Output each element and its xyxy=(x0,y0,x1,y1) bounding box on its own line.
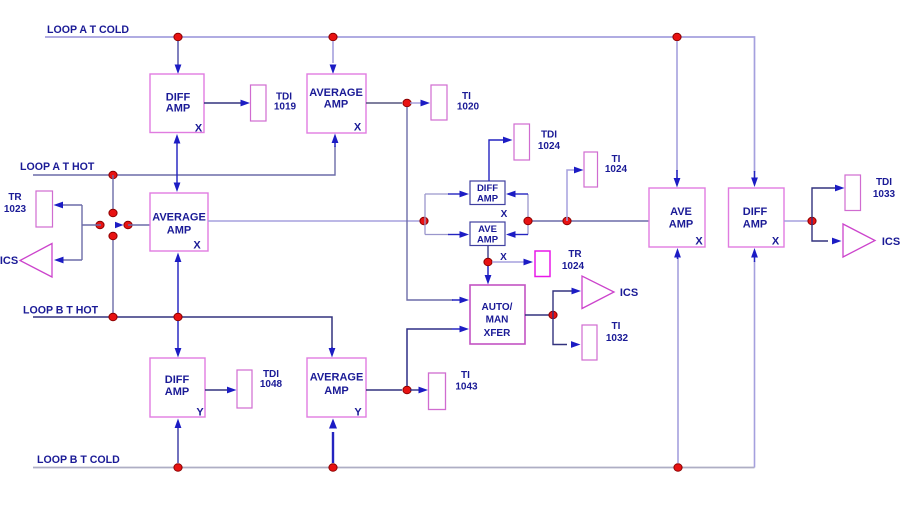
block U7 DIFF AMP xyxy=(729,188,785,247)
wire main line to U6 AVE AMP xyxy=(528,220,649,222)
alarm ICS mid triangle xyxy=(582,276,614,309)
junction dot U2 out xyxy=(403,99,411,107)
svg-text:MAN: MAN xyxy=(486,315,509,326)
svg-text:ICS: ICS xyxy=(620,287,638,299)
indicator TDI 1048 rect xyxy=(237,370,252,408)
svg-text:TI: TI xyxy=(462,91,471,102)
svg-text:TR: TR xyxy=(8,192,22,203)
indicator TI 1020 rect xyxy=(431,85,447,120)
svg-text:1048: 1048 xyxy=(260,379,283,390)
wire drop to U2 AVERAGE AMP xyxy=(332,41,334,63)
svg-text:1019: 1019 xyxy=(274,102,297,113)
svg-text:XFER: XFER xyxy=(484,328,511,339)
wire into TR 1023 xyxy=(61,204,82,206)
block U4 DIFF AMP small xyxy=(470,181,505,205)
junction dot U7 out xyxy=(808,217,816,225)
svg-text:TI: TI xyxy=(461,370,470,381)
wire U3 bottom to B-hot xyxy=(177,260,179,313)
svg-text:X: X xyxy=(195,123,203,135)
junction dot B-cold x333 xyxy=(329,464,337,472)
svg-text:Y: Y xyxy=(354,407,362,419)
wire double arrow U1-U3 xyxy=(176,141,178,185)
svg-text:Y: Y xyxy=(196,407,204,419)
junction dot A-cold/U1 xyxy=(174,33,182,41)
indicator TR 1023 rect xyxy=(36,191,53,227)
wire down into U9 DIFF AMP xyxy=(177,321,179,350)
svg-text:1023: 1023 xyxy=(4,204,27,215)
wire up to TI 1024 xyxy=(567,170,575,221)
wire U7 output xyxy=(784,220,808,222)
svg-text:1024: 1024 xyxy=(605,164,628,175)
svg-text:ICS: ICS xyxy=(0,255,18,267)
wire royal stub into U7 top xyxy=(754,171,756,180)
wire hot-leg vertical x=113 upper xyxy=(112,175,114,214)
indicator TR 1024 rect xyxy=(535,251,550,277)
junction dot U8 out xyxy=(549,311,557,319)
wire U2-out down into AUTO/MAN input 1 xyxy=(407,107,453,300)
junction dot x528 xyxy=(524,217,532,225)
alarm ICS right triangle xyxy=(843,224,875,257)
block U1 DIFF AMP xyxy=(150,74,204,133)
wire loop feeding U4/U5 small amps xyxy=(424,194,426,235)
wire LOOP B T COLD horizontal + right turn up to U7 bottom xyxy=(33,467,755,469)
junction dot U5 bottom xyxy=(484,258,492,266)
wire LOOP B T HOT horizontal + turn down into U10 AVERAGE AMP xyxy=(33,317,332,348)
block U5 AVE AMP small xyxy=(470,222,505,246)
junction dot U3 out xyxy=(420,217,428,225)
block U9 DIFF AMP xyxy=(150,358,205,417)
wire branch to TDI 1033 xyxy=(812,188,836,221)
wire up into U6 bottom xyxy=(677,258,679,463)
alarm ICS left triangle xyxy=(20,244,52,278)
svg-text:AMP: AMP xyxy=(324,385,348,397)
svg-text:LOOP A T HOT: LOOP A T HOT xyxy=(20,161,95,173)
wire U10-out up into AUTO/MAN input 2 xyxy=(407,329,452,386)
wire hot-leg vertical x=113 lower xyxy=(112,236,114,317)
svg-text:1024: 1024 xyxy=(562,261,585,272)
svg-text:AVERAGE: AVERAGE xyxy=(310,372,364,384)
svg-text:LOOP B T HOT: LOOP B T HOT xyxy=(23,305,99,317)
wire U4 top to TDI 1024 xyxy=(489,140,503,181)
junction dot B-cold x678 xyxy=(674,464,682,472)
indicator TDI 1024 rect xyxy=(514,124,530,160)
svg-text:AMP: AMP xyxy=(167,225,191,237)
svg-text:1024: 1024 xyxy=(538,141,561,152)
junction dot cluster top xyxy=(109,209,117,217)
svg-text:X: X xyxy=(193,240,201,252)
svg-text:TI: TI xyxy=(612,321,621,332)
wire U9 output to TDI 1048 xyxy=(205,389,228,391)
wire branch to ICS mid xyxy=(553,291,572,315)
junction dot U10 out xyxy=(403,386,411,394)
junction dot B-hot x178 xyxy=(174,313,182,321)
svg-text:TDI: TDI xyxy=(876,177,892,188)
wire to TR 1024 xyxy=(492,261,524,263)
wire U9 bottom from B-cold xyxy=(177,427,179,463)
wire into TI 1043 xyxy=(410,389,419,391)
svg-text:AMP: AMP xyxy=(324,99,348,111)
svg-text:AUTO/: AUTO/ xyxy=(482,302,513,313)
junction dot A-cold/U2 xyxy=(329,33,337,41)
svg-text:AVERAGE: AVERAGE xyxy=(309,87,363,99)
junction dot cluster bottom xyxy=(109,232,117,240)
svg-text:AMP: AMP xyxy=(165,386,189,398)
junction dot cluster left xyxy=(96,221,104,229)
indicator TDI 1019 rect xyxy=(251,85,267,121)
svg-text:TR: TR xyxy=(568,249,582,260)
svg-text:AVE: AVE xyxy=(670,206,692,218)
svg-text:1020: 1020 xyxy=(457,102,480,113)
wire branch to TR 1023 and ICS xyxy=(81,205,83,260)
svg-text:X: X xyxy=(354,122,362,134)
wire U1 output to TDI 1019 xyxy=(204,102,241,104)
wire U5 bottom to junction xyxy=(487,246,489,260)
svg-text:AVE: AVE xyxy=(478,224,497,235)
block U6 AVE AMP xyxy=(649,188,705,247)
svg-text:LOOP A T COLD: LOOP A T COLD xyxy=(47,24,129,36)
wire U2 output to junction xyxy=(366,102,402,104)
svg-text:AMP: AMP xyxy=(743,219,767,231)
wire into ICS left xyxy=(62,259,82,261)
block U3 AVERAGE AMP xyxy=(150,193,208,251)
svg-text:LOOP B T COLD: LOOP B T COLD xyxy=(37,454,120,466)
block U10 AVERAGE AMP xyxy=(307,358,366,417)
wire U8 output xyxy=(525,314,549,316)
junction dot A-hot xyxy=(109,171,117,179)
wire U3 output lavender xyxy=(208,220,421,222)
indicator TI 1043 rect xyxy=(429,373,446,410)
svg-text:AMP: AMP xyxy=(166,103,190,115)
wire U10 output xyxy=(366,389,402,391)
indicator TI 1024 rect xyxy=(584,152,598,187)
svg-text:AVERAGE: AVERAGE xyxy=(152,212,206,224)
wire U10 bottom from B-cold thick xyxy=(332,432,334,463)
svg-text:TDI: TDI xyxy=(541,130,557,141)
svg-text:X: X xyxy=(695,236,703,248)
junction dot x567 xyxy=(563,217,571,225)
svg-text:1032: 1032 xyxy=(606,333,629,344)
svg-text:AMP: AMP xyxy=(477,235,499,246)
wire branch to TI 1032 xyxy=(553,315,567,345)
svg-text:DIFF: DIFF xyxy=(165,374,190,386)
svg-text:ICS: ICS xyxy=(882,236,900,248)
wire right stubs into U4/U5 xyxy=(527,194,529,235)
wire drop to U6 AVE AMP xyxy=(676,41,678,171)
junction dot cluster right xyxy=(124,221,132,229)
wire LOOP A T COLD horizontal + right drop to U7 DIFF AMP xyxy=(45,37,755,172)
svg-text:1033: 1033 xyxy=(873,189,896,200)
junction dot B-cold x178 xyxy=(174,464,182,472)
wire drop to U1 DIFF AMP xyxy=(177,41,179,65)
block U8 AUTO/MAN XFER xyxy=(470,285,525,344)
wire cluster to U3 AVERAGE AMP input xyxy=(82,224,101,226)
svg-text:AMP: AMP xyxy=(477,194,499,205)
indicator TI 1032 rect xyxy=(582,325,597,360)
junction dot A-cold/U6 xyxy=(673,33,681,41)
svg-text:X: X xyxy=(501,209,508,220)
wire branch to ICS right xyxy=(812,221,828,241)
svg-text:DIFF: DIFF xyxy=(743,206,768,218)
indicator TDI 1033 rect xyxy=(845,175,861,211)
svg-text:AMP: AMP xyxy=(669,219,693,231)
svg-text:X: X xyxy=(772,236,780,248)
block U2 AVERAGE AMP xyxy=(307,74,366,133)
arrow cluster flow xyxy=(115,222,124,228)
junction dot B-hot x113 xyxy=(109,313,117,321)
svg-text:DIFF: DIFF xyxy=(477,183,498,194)
wire LOOP A T HOT horizontal + turn up into U2 bottom xyxy=(33,146,335,175)
svg-text:1043: 1043 xyxy=(455,382,478,393)
wire into TI 1020 xyxy=(410,102,421,104)
